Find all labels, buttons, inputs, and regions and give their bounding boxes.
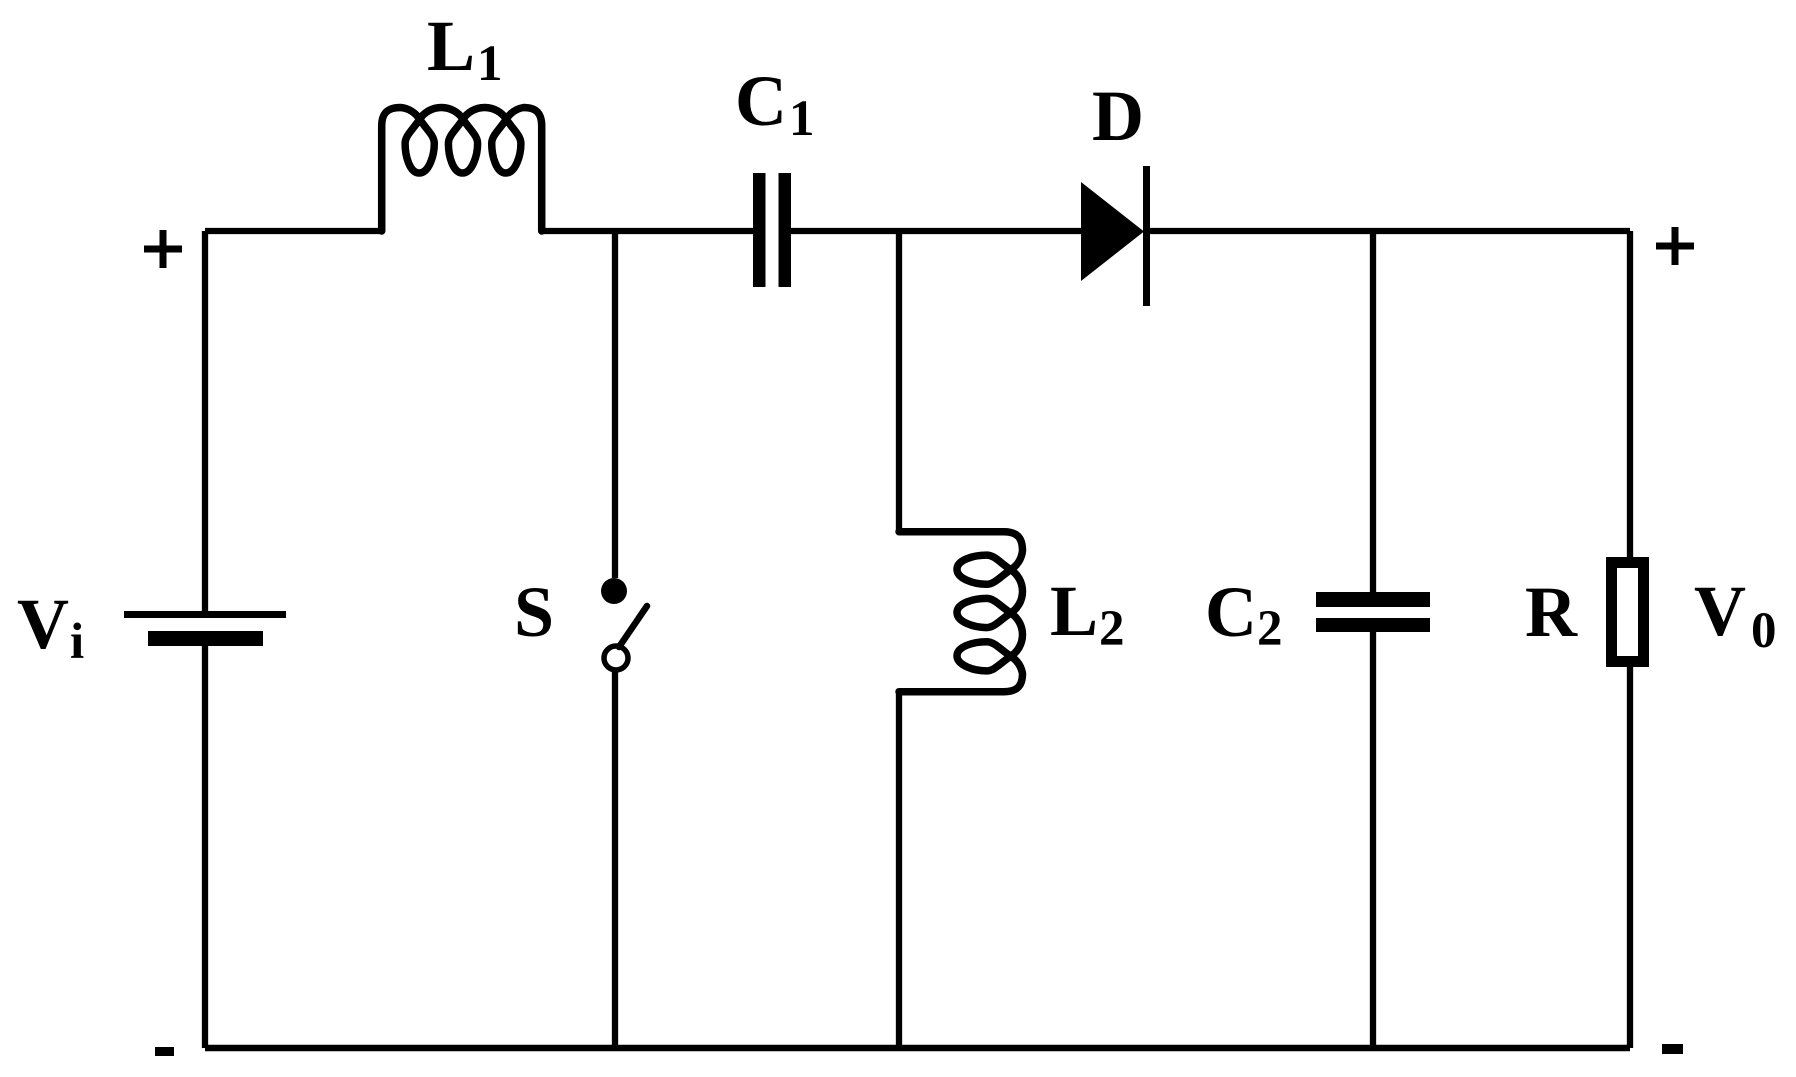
svg-text:C: C xyxy=(735,61,787,141)
wire L2 branch upper xyxy=(896,231,902,531)
svg-text:1: 1 xyxy=(789,91,815,147)
svg-text:2: 2 xyxy=(1257,601,1283,657)
svg-text:2: 2 xyxy=(1099,601,1125,657)
wire switch branch upper xyxy=(612,231,618,578)
svg-text:S: S xyxy=(514,572,554,652)
wire L2 branch lower xyxy=(896,692,902,1048)
svg-text:L: L xyxy=(1050,571,1098,651)
wire C2 branch upper xyxy=(1370,231,1376,592)
minus sign output xyxy=(1662,1044,1683,1054)
diode D xyxy=(1081,166,1150,306)
capacitor C2 xyxy=(1316,592,1430,632)
svg-text:R: R xyxy=(1525,572,1578,652)
plus sign output xyxy=(1656,227,1694,265)
wire right rail upper xyxy=(1627,231,1633,557)
wire left rail upper xyxy=(202,231,208,611)
svg-text:C: C xyxy=(1205,572,1257,652)
wire C2 branch lower xyxy=(1370,632,1376,1048)
wire top rail diode to right corner xyxy=(1150,228,1630,234)
wire bottom rail xyxy=(205,1045,1630,1052)
svg-text:V: V xyxy=(17,584,69,664)
svg-text:1: 1 xyxy=(477,36,503,92)
wire top rail C1 to diode xyxy=(791,228,1081,234)
svg-text:L: L xyxy=(427,6,475,86)
minus sign input xyxy=(155,1047,174,1056)
wire top rail L1 to C1 xyxy=(542,228,753,234)
inductor L2 xyxy=(899,532,1023,692)
svg-text:D: D xyxy=(1092,76,1144,156)
wire top rail left segment (Vi+ to L1) xyxy=(205,228,381,234)
svg-text:i: i xyxy=(70,614,84,670)
switch S xyxy=(601,578,647,670)
wire left rail lower xyxy=(202,646,208,1048)
battery Vi xyxy=(124,611,286,646)
svg-text:0: 0 xyxy=(1751,603,1777,659)
wire switch branch lower xyxy=(612,670,618,1048)
svg-text:V: V xyxy=(1694,571,1746,651)
plus sign input xyxy=(144,230,182,268)
inductor L1 xyxy=(382,108,542,232)
resistor R xyxy=(1612,563,1644,662)
capacitor C1 xyxy=(753,173,791,287)
wire right rail lower xyxy=(1627,667,1633,1048)
